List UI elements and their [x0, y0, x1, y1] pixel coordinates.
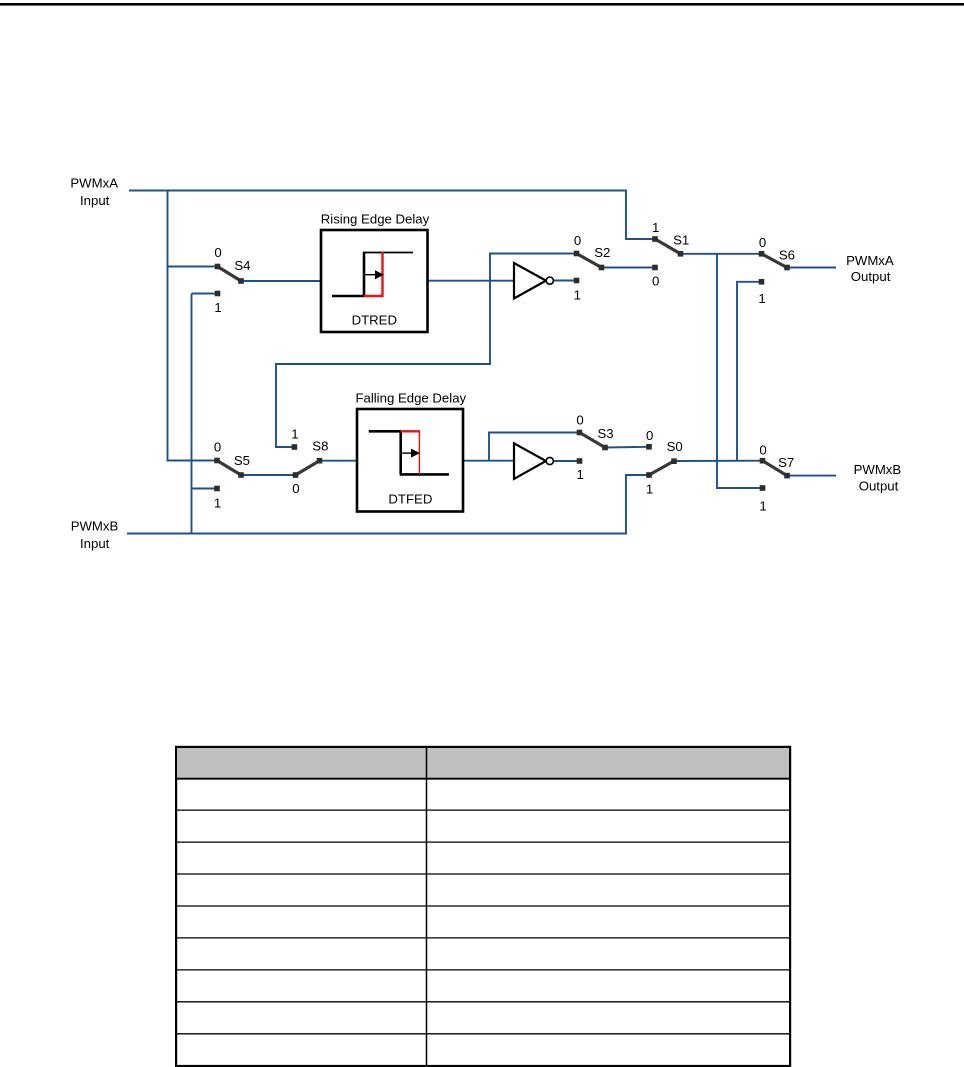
wire to S5-0 — [167, 460, 218, 462]
svg-text:0: 0 — [652, 273, 659, 288]
wire S1 net vertical to S7-1 — [717, 254, 763, 488]
svg-text:Rising Edge Delay: Rising Edge Delay — [321, 211, 430, 226]
inverter U1 — [514, 263, 553, 299]
svg-text:S3: S3 — [598, 426, 614, 441]
svg-text:S8: S8 — [312, 439, 328, 454]
wire PWMxB input horizontal — [127, 533, 626, 535]
svg-text:0: 0 — [214, 245, 221, 260]
wire DTRED output — [428, 280, 515, 282]
node PWMxA Output label — [846, 253, 894, 284]
wire S5 common to S8-0 — [241, 474, 296, 476]
switch S6 — [758, 235, 795, 306]
top rule — [0, 3, 964, 6]
switch S5 — [214, 440, 250, 511]
svg-text:S4: S4 — [234, 258, 250, 273]
svg-text:S2: S2 — [594, 245, 610, 260]
svg-text:Input: Input — [80, 536, 110, 551]
node PWMxA Input label — [70, 176, 118, 209]
wire S2 common to S1-0 — [602, 267, 656, 269]
rising edge delay block DTRED — [321, 211, 430, 332]
node PWMxB Input label — [71, 519, 119, 552]
wire RED net vertical — [489, 254, 491, 365]
wire S1 common to S6-0 — [681, 253, 762, 255]
wire inverter2 to S3-1 — [554, 460, 580, 462]
wire S3 common to S0-0 — [605, 446, 649, 449]
svg-text:S7: S7 — [778, 455, 794, 470]
wire PWMxA to S1-1 — [626, 190, 655, 240]
svg-text:0: 0 — [759, 235, 766, 250]
wire S5-1 — [192, 488, 218, 490]
svg-text:0: 0 — [759, 442, 766, 457]
table — [176, 747, 790, 1067]
falling edge delay block DTFED — [355, 391, 466, 512]
svg-text:0: 0 — [576, 413, 583, 428]
svg-text:S5: S5 — [234, 453, 250, 468]
wire RED net to S2-0 — [489, 253, 577, 255]
svg-text:1: 1 — [574, 287, 581, 302]
svg-text:DTFED: DTFED — [388, 492, 432, 507]
svg-text:0: 0 — [646, 428, 653, 443]
node PWMxB Output label — [854, 462, 902, 494]
svg-text:0: 0 — [574, 233, 581, 248]
wire S4-1 — [192, 293, 218, 295]
wire RED net elbow to S8-1 — [276, 364, 490, 447]
wire S4 common to DTRED — [241, 280, 321, 282]
switch S8 — [291, 427, 328, 497]
switch S3 — [576, 413, 613, 483]
FED delay arrow — [401, 452, 412, 454]
wire S7 common PWMxB output — [787, 475, 836, 477]
svg-text:PWMxA: PWMxA — [846, 253, 894, 268]
wire PWMxA input horizontal — [129, 190, 626, 192]
wire S6-1 down to PWMxB path — [737, 282, 762, 461]
wire PWMxA branch vertical — [167, 190, 169, 461]
svg-text:1: 1 — [291, 427, 298, 442]
svg-text:0: 0 — [214, 440, 221, 455]
svg-text:1: 1 — [758, 291, 765, 306]
wire PWMxB branch vertical — [191, 294, 193, 534]
svg-text:1: 1 — [646, 481, 653, 496]
svg-text:0: 0 — [292, 481, 299, 496]
svg-text:PWMxB: PWMxB — [854, 462, 902, 477]
switch S2 — [574, 233, 611, 302]
switch S4 — [214, 245, 250, 315]
wire DTFED output — [463, 460, 514, 462]
RED waveform — [332, 295, 364, 298]
svg-text:PWMxB: PWMxB — [71, 519, 119, 534]
FED waveform — [369, 430, 401, 433]
wire to S4-0 — [167, 266, 218, 268]
inverter U2 — [514, 443, 553, 479]
svg-text:Output: Output — [851, 269, 891, 284]
svg-text:1: 1 — [214, 495, 221, 510]
svg-text:S6: S6 — [779, 247, 795, 262]
svg-text:S0: S0 — [667, 439, 683, 454]
wire FED net to S3-0 — [488, 432, 580, 434]
svg-text:1: 1 — [652, 220, 659, 235]
wire S0 common to S7-0 — [674, 460, 763, 462]
RED delay arrow — [364, 274, 376, 276]
svg-text:Output: Output — [859, 479, 899, 494]
wire S8 common to DTFED — [320, 460, 358, 462]
switch S7 — [759, 442, 794, 513]
switch S0 — [646, 428, 683, 496]
wire S6 common PWMxA output — [787, 267, 836, 269]
svg-text:DTRED: DTRED — [352, 313, 397, 328]
wire PWMxB to S0-1 — [626, 475, 649, 535]
svg-text:1: 1 — [759, 499, 766, 514]
switch S1 — [652, 220, 689, 288]
svg-text:Input: Input — [80, 193, 110, 208]
wire inverter1 to S2-1 — [554, 280, 577, 282]
svg-text:Falling Edge Delay: Falling Edge Delay — [355, 391, 466, 406]
svg-text:S1: S1 — [673, 233, 689, 248]
wire FED net vertical — [488, 433, 490, 461]
svg-text:PWMxA: PWMxA — [70, 176, 118, 191]
svg-text:1: 1 — [577, 467, 584, 482]
svg-text:1: 1 — [214, 300, 221, 315]
